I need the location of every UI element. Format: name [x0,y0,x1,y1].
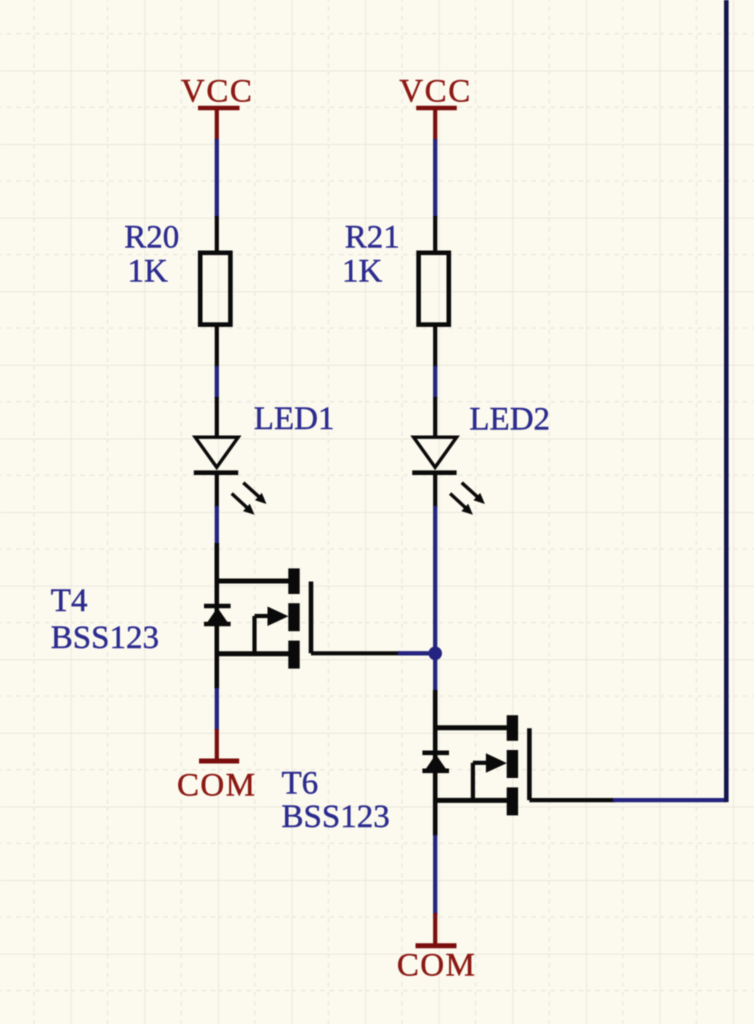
pin R21 top [433,216,437,253]
svg-text:1K: 1K [128,254,169,290]
pin R20 bottom (pin 2) [215,325,219,368]
power symbol COM (left) [199,729,239,761]
svg-text:VCC: VCC [399,74,472,110]
LED2 light arrows [450,483,485,515]
wire R21 to LED2 [433,366,437,398]
wire right vertical (to top of sheet) [724,0,729,802]
wire T4 source to COM [215,688,219,730]
svg-text:R20: R20 [124,220,179,256]
pin LED1 anode [215,397,219,437]
pin LED2 cathode [433,471,437,508]
transistor T6 BSS123 (N-MOSFET) [422,690,529,836]
svg-text:LED1: LED1 [254,401,335,437]
svg-text:BSS123: BSS123 [51,620,159,656]
wire T4 gate to junction [398,651,434,655]
svg-text:COM: COM [177,768,256,804]
junction node [428,647,442,661]
svg-text:T4: T4 [51,583,88,619]
diode LED1 body [194,437,238,473]
resistor R21 [419,253,449,325]
wire LED1 to T4 [215,506,219,544]
wire VCC to R21 [433,139,437,217]
pin R20 top (pin 1) [215,216,219,253]
wire VCC to R20 [215,139,219,217]
diode LED2 body [412,437,456,473]
wire LED2 to T6 drain (through junction) [433,506,437,691]
pin T4 gate [311,651,400,655]
svg-text:LED2: LED2 [469,402,550,438]
pin R21 bottom [433,325,437,368]
power symbol VCC bar (left) [198,108,240,140]
wire T6 gate to right bus [613,798,726,802]
pin T6 gate [529,798,615,802]
pin LED2 anode [433,397,437,437]
LED1 light arrows [232,483,267,515]
svg-text:BSS123: BSS123 [282,799,390,835]
power symbol VCC bar (right) [416,108,457,140]
svg-text:COM: COM [397,948,476,984]
svg-text:R21: R21 [345,220,400,256]
power symbol COM (right) [416,913,457,946]
pin LED1 cathode [215,471,219,508]
wire T6 source to COM [433,835,437,915]
svg-text:VCC: VCC [181,74,254,110]
resistor R20 [200,253,230,325]
wire R20 to LED1 [215,366,219,398]
transistor T4 BSS123 (N-MOSFET) [204,543,311,689]
svg-text:T6: T6 [282,766,319,802]
svg-text:1K: 1K [342,254,383,290]
